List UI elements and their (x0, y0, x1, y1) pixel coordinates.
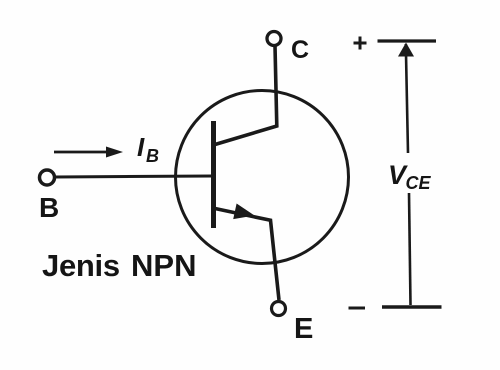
top reference bar of VCE arrow (378, 39, 437, 42)
transistor Q1 (NPN) body circle (176, 91, 349, 264)
VCE vertical measure line lower segment (409, 193, 411, 305)
transistor Q1 emitter arrow (233, 204, 254, 220)
transistor Q1 emitter branch (215, 209, 279, 301)
terminal C open circle (267, 32, 281, 46)
terminal B open circle (40, 170, 55, 185)
VCE arrow head (points up) (398, 43, 414, 57)
transistor Q1 base bar (211, 121, 216, 228)
minus sign (bottom of VCE arrow) (349, 307, 366, 310)
svg-text:Jenis: Jenis (42, 248, 120, 283)
svg-text:CE: CE (406, 173, 432, 193)
svg-text:B: B (39, 192, 59, 223)
transistor Q1 collector branch (215, 46, 277, 145)
svg-text:I: I (137, 132, 145, 162)
plus sign (top of VCE arrow) (354, 42, 367, 45)
current arrow IB shaft (54, 151, 108, 154)
wire base lead from B terminal to base bar (55, 176, 212, 177)
VCE vertical measure line upper segment (406, 44, 408, 153)
svg-text:E: E (294, 313, 313, 345)
current arrow IB head (106, 147, 123, 158)
svg-text:C: C (291, 36, 309, 64)
svg-text:NPN: NPN (131, 248, 196, 283)
terminal E open circle (272, 302, 286, 316)
svg-text:B: B (146, 146, 159, 166)
bottom reference bar of VCE arrow (382, 305, 442, 308)
